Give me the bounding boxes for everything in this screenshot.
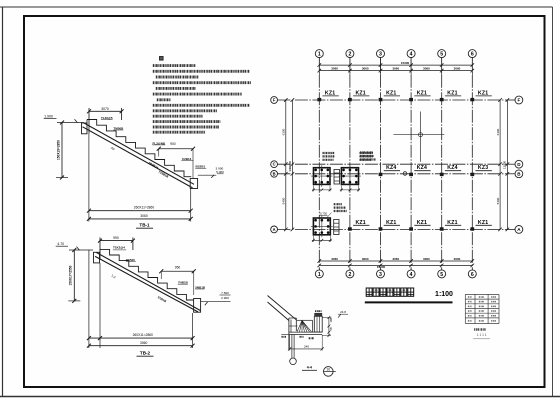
svg-text:15300: 15300 — [377, 265, 386, 269]
svg-text:150X17=2550: 150X17=2550 — [69, 265, 73, 285]
svg-text:4: 4 — [410, 272, 413, 278]
svg-text:4-4: 4-4 — [307, 366, 312, 370]
detail labels above KZ1/axis1-A — [320, 204, 347, 217]
axis bubble 5 bottom — [438, 270, 446, 278]
stair TB-1 level mark 1.900 — [44, 115, 84, 123]
stair TB-2 top dimension 990 — [98, 236, 135, 260]
axis bubble F left — [271, 97, 278, 104]
stair TB-1 step-beam connector — [86, 120, 88, 124]
plan horizontal grid line F — [277, 99, 515, 101]
detail labels above KZ2/axis2 — [360, 153, 374, 160]
stair TB-1 title — [136, 223, 153, 229]
svg-text:T1K2@4: T1K2@4 — [113, 246, 125, 250]
svg-text:1:100: 1:100 — [435, 291, 453, 298]
detail labels above KZ1/axis1 — [323, 153, 336, 160]
svg-text:3060: 3060 — [454, 67, 461, 71]
stair TB-1 top beam — [82, 123, 88, 134]
detail bottom dimension 240 — [288, 335, 324, 351]
stair TB-1 left vertical dimension — [56, 121, 68, 180]
svg-text:1BB: 1BB — [329, 317, 333, 322]
plan top dimension chain — [318, 57, 475, 75]
svg-text:3: 3 — [379, 52, 382, 58]
svg-text:3060: 3060 — [392, 67, 399, 71]
svg-text:1.900: 1.900 — [44, 115, 53, 119]
column KZ1 at axis 3-F — [379, 90, 400, 101]
plan left dimension chain — [282, 98, 295, 231]
schedule table — [465, 294, 499, 323]
svg-text:3060: 3060 — [423, 257, 430, 261]
column KZ1 at axis 5-A — [440, 220, 461, 231]
axis bubble 4 top — [407, 50, 415, 58]
column KZ1 at axis 1-F — [317, 90, 338, 101]
plan horizontal grid line C — [277, 163, 515, 165]
svg-text:900: 900 — [170, 142, 176, 146]
column KZ1 at axis 4-F — [409, 90, 430, 101]
column KZ1 at axis 5-F — [440, 90, 461, 101]
svg-text:5400: 5400 — [282, 197, 286, 204]
svg-text:7.500: 7.500 — [221, 291, 229, 295]
stair TB-1 top dimension 3070 — [87, 107, 124, 134]
stair TB-1 right level marks 3.900 — [198, 166, 224, 178]
svg-text:260X11=2860: 260X11=2860 — [134, 206, 155, 210]
beam section next to bottom detail — [334, 220, 339, 235]
svg-text:15300: 15300 — [401, 61, 410, 65]
stair TB-1 middle dimension 900 — [157, 142, 195, 178]
column section detail KZ1/axis1-A — [311, 216, 333, 242]
svg-text:3060: 3060 — [140, 214, 148, 218]
plan right dimension chain — [496, 98, 509, 231]
svg-text:C: C — [273, 162, 276, 167]
axis bubble C left — [271, 161, 278, 168]
detail right beam — [314, 311, 322, 332]
svg-text:5: 5 — [440, 272, 443, 278]
svg-text:TB-2: TB-2 — [140, 350, 151, 355]
svg-text:3060: 3060 — [331, 257, 338, 261]
svg-text:5NB1B: 5NB1B — [195, 285, 206, 289]
svg-text:5.000: 5.000 — [216, 170, 224, 174]
plan horizontal grid line B — [277, 173, 515, 175]
svg-text:1: 1 — [318, 272, 321, 278]
svg-text:4: 4 — [410, 52, 413, 58]
svg-text:6300: 6300 — [496, 128, 500, 135]
axis bubble 1 bottom — [315, 270, 323, 278]
column KZ1 at axis 4-A — [409, 220, 430, 231]
svg-text:6: 6 — [471, 272, 474, 278]
detail bottom slab double line — [289, 332, 322, 334]
svg-text:24.8: 24.8 — [340, 310, 346, 314]
stair TB-1 bottom beam — [190, 179, 197, 189]
axis bubble 3 top — [377, 50, 385, 58]
svg-text:10: 10 — [326, 367, 330, 371]
axis bubble 5 top — [438, 50, 446, 58]
svg-text:3060: 3060 — [362, 67, 369, 71]
axis bubble A left — [271, 226, 278, 233]
detail misc small labels — [281, 334, 314, 338]
column KZ4 at axis 4-B — [409, 165, 430, 176]
svg-text:B: B — [273, 171, 276, 176]
axis bubble 2 top — [346, 50, 354, 58]
notes heading — [160, 57, 164, 61]
detail hatch fan — [297, 320, 313, 332]
svg-text:3060: 3060 — [331, 67, 338, 71]
detail balloon 10 — [324, 367, 336, 377]
svg-text:BS2B1: BS2B1 — [196, 165, 206, 169]
axis bubble 3 bottom — [377, 270, 385, 278]
opening center mark — [393, 112, 444, 162]
stair TB-2 step rebar labels — [111, 246, 206, 304]
detail right dim chain — [322, 316, 333, 337]
axis bubble F right — [515, 96, 523, 104]
stair TB-2 right level marks 7.500 — [201, 291, 231, 305]
svg-text:4.70: 4.70 — [57, 242, 64, 246]
stair TB-2 sloped slab — [95, 253, 200, 312]
beam section between details — [334, 170, 340, 185]
axis bubble 6 bottom — [468, 270, 476, 278]
svg-text:2.900: 2.900 — [221, 296, 229, 300]
column KZ1 at axis 2-A — [348, 220, 369, 231]
axis bubble 1 top — [315, 50, 323, 58]
detail wall verticals — [289, 318, 298, 350]
column section detail KZ2/axis2 — [339, 165, 361, 191]
svg-text:3060: 3060 — [362, 257, 369, 261]
svg-text:3060: 3060 — [454, 257, 461, 261]
column KZ4 at axis 3-B — [379, 165, 400, 176]
svg-text:950: 950 — [175, 266, 181, 270]
svg-text:3070: 3070 — [101, 107, 109, 111]
svg-text:1: 1 — [318, 52, 321, 58]
svg-text:5400: 5400 — [496, 197, 500, 204]
stair TB-1 bottom dimension chain — [87, 134, 193, 222]
stair TB-2 bottom dimension chain — [87, 250, 195, 348]
svg-text:2: 2 — [348, 52, 351, 58]
axis bubble A right — [515, 226, 523, 234]
column KZ3 at axis 6-B — [470, 165, 491, 176]
svg-text:150X19=2850: 150X19=2850 — [56, 140, 60, 160]
svg-text:5: 5 — [440, 52, 443, 58]
svg-text:260X11=2860: 260X11=2860 — [133, 333, 154, 337]
column section detail KZ1/axis1 — [311, 165, 333, 191]
axis bubble B right — [515, 170, 523, 178]
svg-text:12600: 12600 — [288, 160, 292, 169]
column KZ1 at axis 2-F — [348, 90, 369, 101]
stair TB-1 steps — [87, 120, 191, 177]
stair TB-2 step-beam connector — [99, 249, 101, 252]
svg-text:3060: 3060 — [423, 67, 430, 71]
column KZ1 at axis 3-A — [379, 220, 400, 231]
axis bubble 6 top — [468, 50, 476, 58]
plan vertical grid lines axes 1-6 — [319, 57, 472, 270]
svg-text:1 1 1 1: 1 1 1 1 — [477, 333, 487, 337]
stair TB-2 title — [137, 350, 154, 356]
detail hanging bar with loop — [290, 335, 297, 365]
column KZ1 at axis 6-F — [470, 90, 491, 101]
axis bubble B left — [271, 170, 278, 177]
svg-text:TB-1: TB-1 — [139, 223, 150, 228]
stair TB-1 step rebar labels — [101, 116, 206, 179]
svg-text:3060: 3060 — [140, 341, 148, 345]
column KZ4 at axis 5-B — [440, 165, 461, 176]
stair TB-2 steps — [100, 249, 194, 300]
svg-text:12600: 12600 — [503, 160, 507, 169]
svg-text:0.730: 0.730 — [320, 212, 327, 216]
beam annotation near axis 2 — [360, 153, 376, 160]
stair TB-2 top beam — [94, 252, 100, 263]
axis bubble 4 bottom — [407, 270, 415, 278]
svg-text:990: 990 — [113, 236, 119, 240]
stair TB-2 level mark 4.70 — [56, 242, 93, 250]
stair TB-2 bottom beam — [194, 299, 201, 313]
column KZ1 at axis 6-A — [470, 220, 491, 231]
svg-text:5B: 5B — [329, 327, 333, 330]
svg-text:F: F — [517, 98, 520, 103]
svg-text:3: 3 — [379, 272, 382, 278]
svg-text:3060: 3060 — [392, 257, 399, 261]
table caption — [473, 330, 490, 339]
stair TB-2 middle dimension 950 — [159, 266, 196, 295]
detail right level flag — [338, 310, 348, 317]
svg-text:240: 240 — [304, 344, 309, 348]
stair TB-1 sloped slab — [83, 123, 195, 188]
plan bottom dimension chain — [318, 257, 475, 269]
svg-text:C2B14: C2B14 — [182, 157, 192, 161]
notes text block — [153, 66, 251, 133]
svg-text:6300: 6300 — [282, 128, 286, 135]
stair TB-2 left vertical dimension — [68, 248, 80, 303]
detail section label 4-4 — [302, 366, 317, 371]
svg-text:6: 6 — [471, 52, 474, 58]
axis bubble 2 bottom — [346, 270, 354, 278]
svg-text:2: 2 — [348, 272, 351, 278]
svg-text:A: A — [273, 227, 276, 232]
plan horizontal grid line A — [277, 228, 515, 230]
small circle on axis B — [403, 172, 407, 176]
detail sloped slab lines — [268, 296, 297, 321]
axis bubble D right — [515, 160, 523, 168]
drawing title (CJK pseudo-glyphs) — [365, 288, 453, 302]
